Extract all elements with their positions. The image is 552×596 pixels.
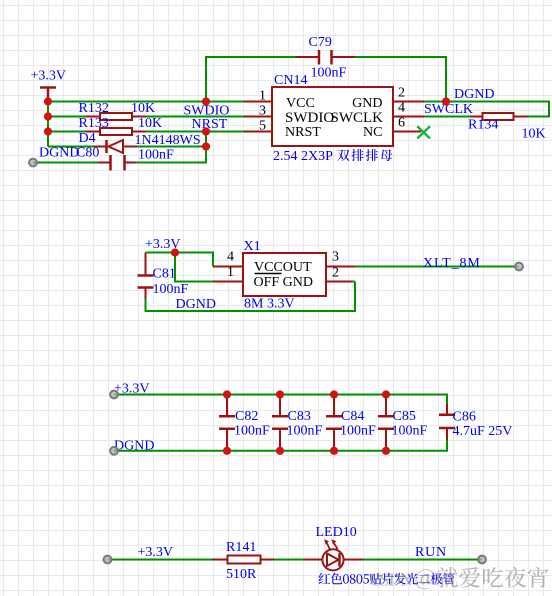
pin 3 [326,266,355,268]
svg-text:4: 4 [398,101,405,116]
wire pin3 row segments [48,116,244,118]
pin 2 [393,101,424,103]
resistor R134 [468,113,546,142]
pin 1 [213,281,243,283]
wire pin2 to rail [352,281,355,283]
svg-text:R134: R134 [468,118,498,133]
svg-text:100nF: 100nF [392,424,428,439]
svg-text:1: 1 [259,89,266,104]
svg-text:C81: C81 [153,267,176,282]
node junction (48,101.5) [44,97,52,105]
wire C80 left [33,162,98,164]
connector CN14 [272,73,393,164]
pin 1 [244,101,272,103]
wire to pin1 [175,253,213,282]
wire +3.3V rail [114,395,447,405]
node junction (446,101.5) [442,97,450,105]
node junction (227,450.8) [223,447,231,455]
power port +3.3V (top-left) [31,69,67,102]
svg-text:XLT_8M: XLT_8M [423,256,481,271]
wire left rail [47,102,49,147]
capacitor C81 [138,253,189,300]
svg-text:OFF GND: OFF GND [254,275,314,290]
svg-text:510R: 510R [226,567,257,582]
svg-text:+3.3V: +3.3V [138,545,174,560]
pin 2 [326,281,352,283]
svg-text:R133: R133 [79,116,109,131]
diode D4 [79,131,201,153]
svg-text:R141: R141 [226,540,256,555]
oscillator X1 [243,239,326,312]
node endpoint gray (107.5,559.5) [104,556,112,564]
node junction (206,131.5) [202,127,210,135]
node endpoint gray (482,559.5) [478,556,486,564]
svg-text:10K: 10K [131,101,155,116]
node endpoint gray (33,162.5) [29,159,37,167]
node junction (227,394.5) [223,390,231,398]
capacitor C86 [439,404,512,440]
node junction (48,116.5) [44,112,52,120]
wire NRST vertical x=206 [136,132,206,163]
svg-text:2.54 2X3P: 2.54 2X3P [273,149,333,164]
pin 3 [244,116,272,118]
svg-text:C80: C80 [76,146,99,161]
svg-text:LED10: LED10 [316,525,357,540]
wire left [108,559,213,561]
wire C79 branch [206,57,446,102]
node junction (386,394.5) [382,390,390,398]
LED LED10 [305,525,455,585]
wire right [363,559,482,561]
node junction (280,450.8) [276,447,284,455]
svg-text:SWDIO: SWDIO [285,110,334,126]
node endpoint gray (114,450.8) [110,447,118,455]
svg-text:6: 6 [398,116,405,131]
pin 4 [393,116,424,118]
resistor R133 [79,116,163,135]
svg-text:DGND: DGND [176,297,216,312]
svg-text:3: 3 [332,250,339,265]
node endpoint gray (519,266.5) [515,263,523,271]
svg-text:2: 2 [398,86,405,101]
node junction (175,252.5) [171,248,179,256]
svg-text:8M 3.3V: 8M 3.3V [244,297,295,312]
svg-text:R132: R132 [79,101,109,116]
node junction (48,131.5) [44,127,52,135]
svg-text:D4: D4 [79,131,96,146]
svg-text:1N4148WS: 1N4148WS [135,133,201,148]
wire DGND bottom rail [146,282,356,312]
svg-text:NRST: NRST [285,125,321,140]
wire mid [274,559,305,561]
svg-text:100nF: 100nF [287,424,323,439]
resistor R141 [212,540,274,582]
node junction (206,146.5) [202,142,210,150]
resistor R132 [79,101,156,120]
capacitor C79 [296,35,356,81]
wire XLT_8M [355,266,519,268]
svg-text:C84: C84 [341,409,364,424]
no-connect X on pin 6 [417,126,430,138]
capacitor C80 [76,146,174,171]
svg-text:+3.3V: +3.3V [31,69,67,84]
watermark [370,567,548,589]
svg-text:RUN: RUN [415,545,447,560]
svg-text:100nF: 100nF [311,66,347,81]
svg-text:DGND: DGND [39,146,79,161]
wire SWCLK row [424,116,470,118]
svg-text:DGND: DGND [114,439,154,454]
capacitor C84 [326,395,376,451]
pin 4 [213,266,243,268]
svg-text:3: 3 [259,104,266,119]
svg-text:C85: C85 [393,409,416,424]
svg-text:C86: C86 [453,410,476,425]
wire +3.3V rail [146,253,214,267]
svg-text:2: 2 [332,266,339,281]
svg-text:10K: 10K [522,127,546,142]
node junction (334,450.8) [330,447,338,455]
svg-text:100nF: 100nF [340,424,376,439]
svg-text:100nF: 100nF [234,424,270,439]
svg-text:NC: NC [363,125,382,140]
node junction (386,450.8) [382,447,390,455]
wire pin1 row [48,101,244,103]
wire D4 row [48,146,206,148]
svg-text:10K: 10K [138,116,162,131]
svg-text:DGND: DGND [454,87,494,102]
wire pin5 row segments [48,131,244,133]
svg-text:4: 4 [227,250,234,265]
node junction (206,101.5) [202,97,210,105]
svg-text:100nF: 100nF [138,148,174,163]
svg-text:X1: X1 [244,239,261,254]
capacitor C85 [378,395,428,451]
capacitor C82 [219,395,270,451]
node junction (334,394.5) [330,390,338,398]
pin 6 [393,131,421,133]
wire DGND row right [424,102,549,117]
svg-text:1: 1 [227,265,234,280]
svg-text:SWCLK: SWCLK [331,110,384,126]
svg-text:GND: GND [352,96,382,111]
wire DGND rail [114,440,447,451]
capacitor C83 [272,395,323,451]
svg-text:VCCOUT: VCCOUT [254,260,312,275]
svg-text:C83: C83 [288,409,311,424]
svg-text:100nF: 100nF [153,282,189,297]
svg-text:C82: C82 [235,409,258,424]
svg-text:C79: C79 [309,35,332,50]
svg-text:CN14: CN14 [274,73,307,88]
svg-text:4.7uF 25V: 4.7uF 25V [453,424,513,439]
node junction (280,394.5) [276,390,284,398]
pin 5 [244,131,272,133]
node endpoint gray (114,394.5) [110,391,118,399]
svg-text:5: 5 [259,119,266,134]
svg-text:VCC: VCC [286,96,315,111]
